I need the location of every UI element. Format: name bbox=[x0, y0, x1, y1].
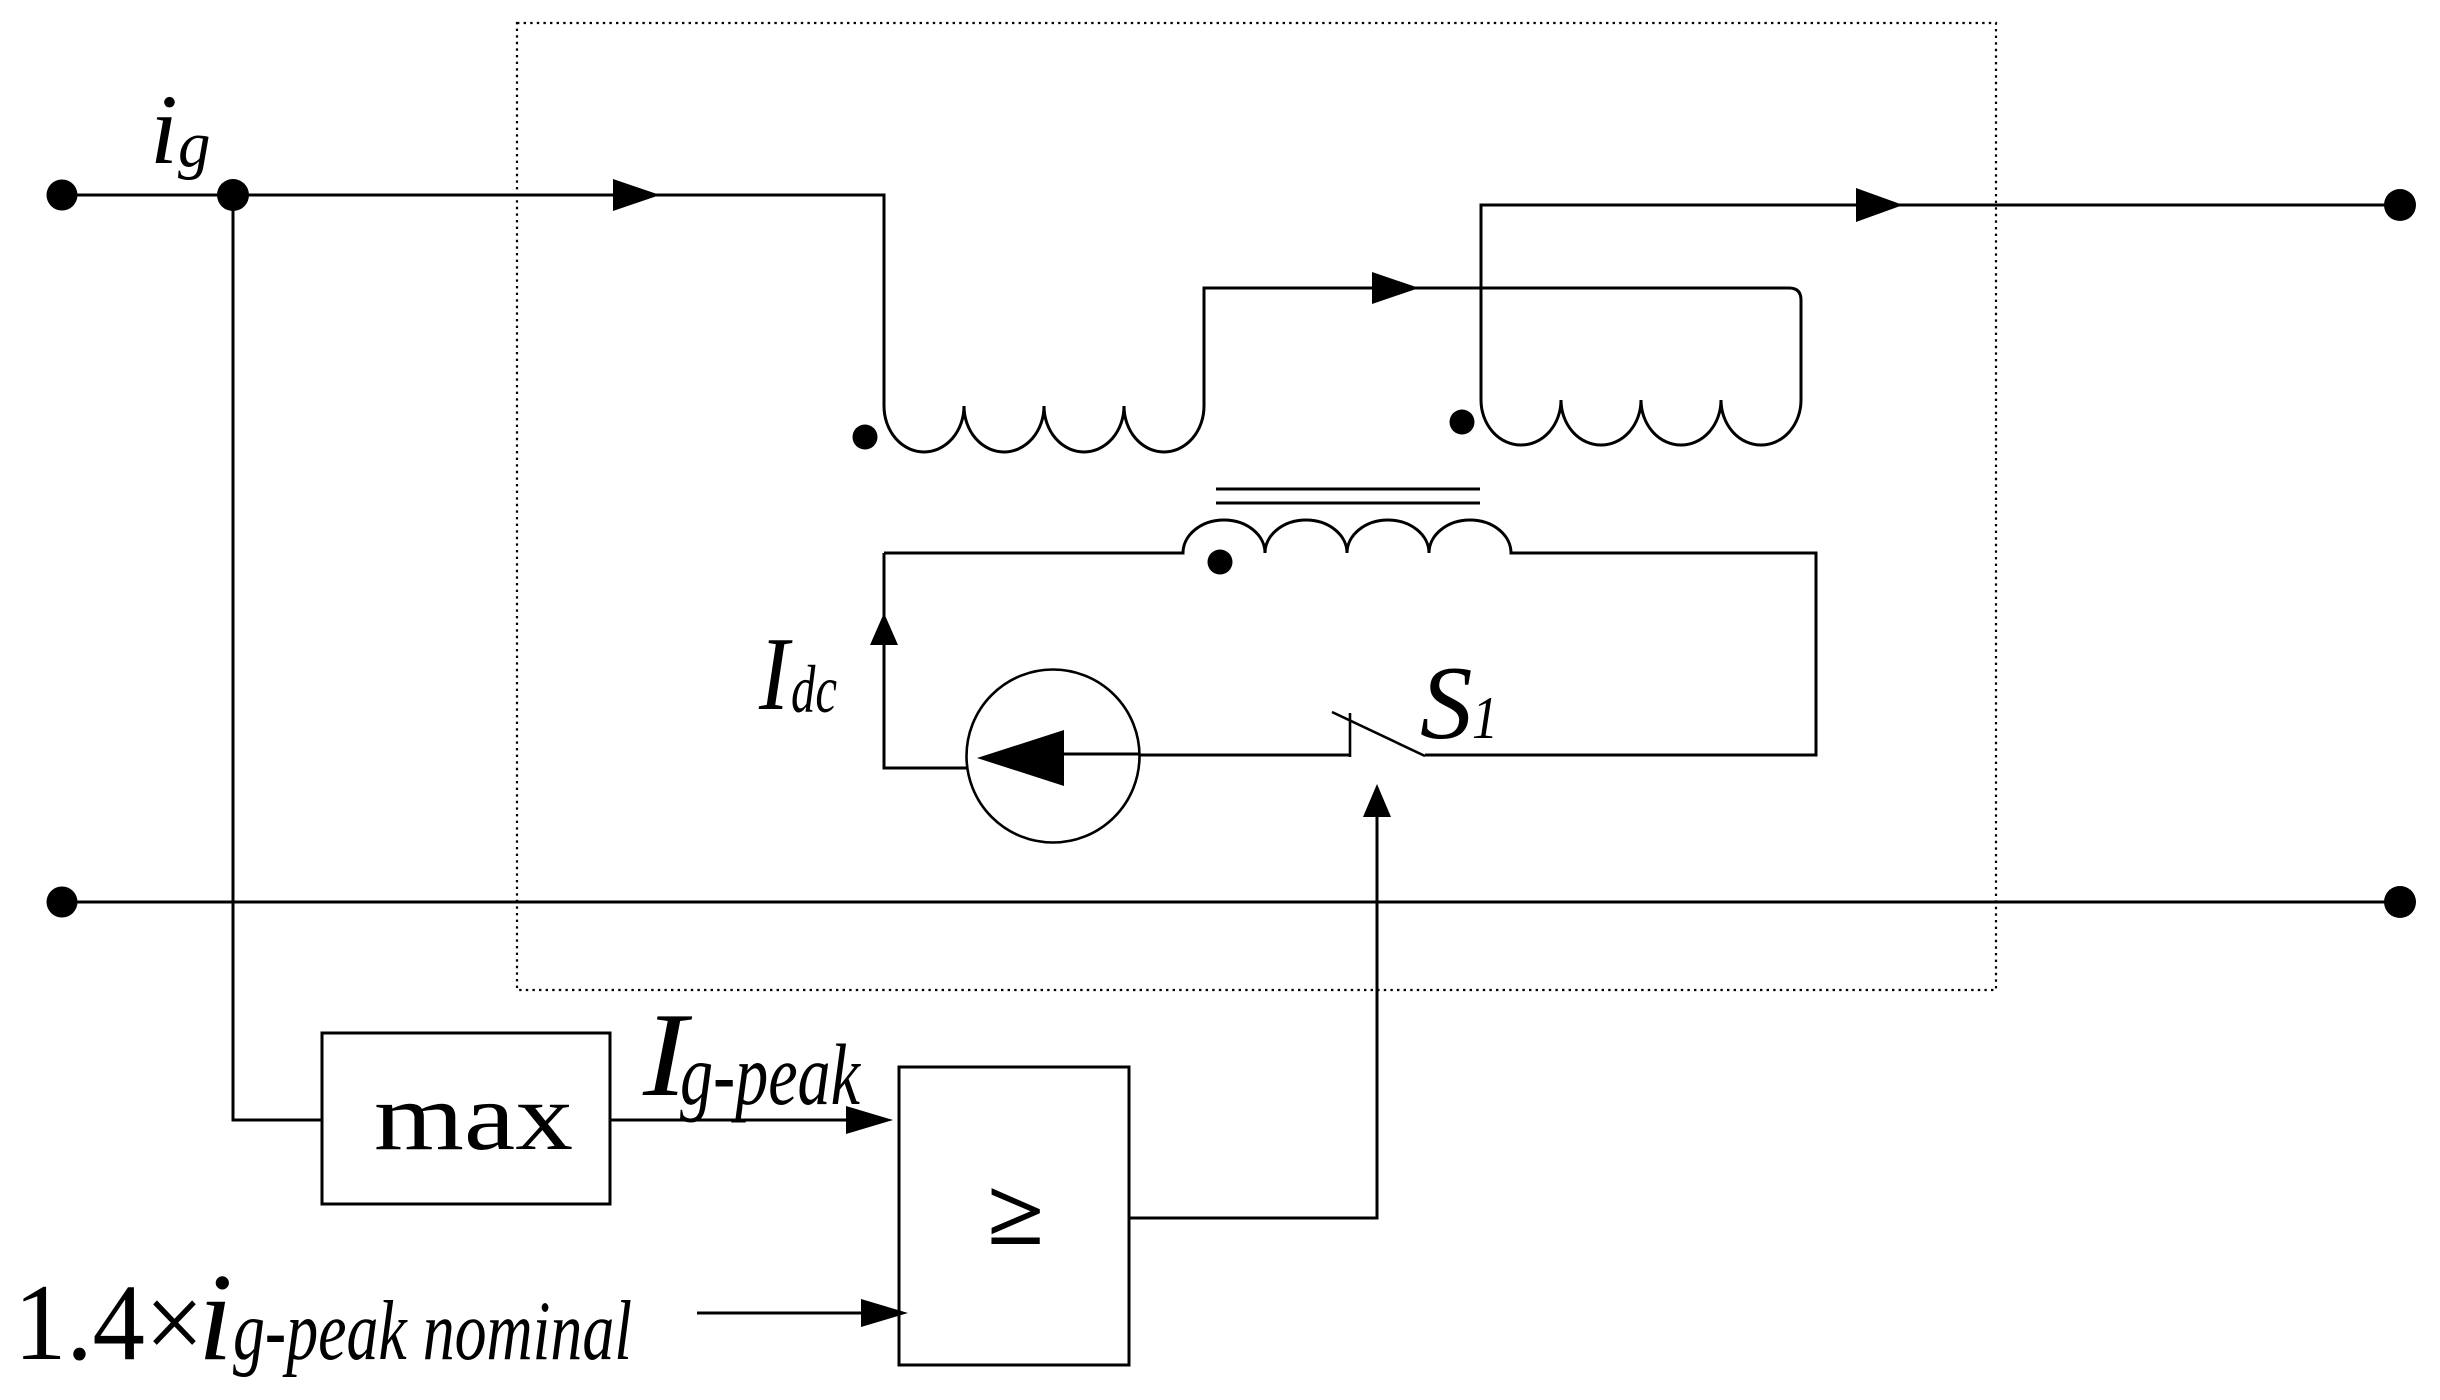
wire label to comparator lower input bbox=[697, 1312, 865, 1315]
comparator block bbox=[899, 1067, 1129, 1365]
arrow into comparator lower input bbox=[861, 1299, 908, 1327]
node junction dot ig bbox=[217, 179, 249, 211]
transformer secondary dot bbox=[1208, 550, 1233, 575]
node input terminal dot bbox=[47, 180, 78, 211]
current source circle bbox=[967, 670, 1140, 843]
arrow Idc bbox=[870, 613, 898, 645]
svg-text:i: i bbox=[198, 1249, 233, 1387]
inductor L3 secondary winding bbox=[1183, 520, 1511, 553]
svg-text:g: g bbox=[178, 109, 211, 181]
wire current source to switch bbox=[1139, 754, 1350, 757]
wire secondary loop right side bbox=[1425, 553, 1816, 755]
wire output to terminal bbox=[1480, 204, 2401, 207]
wire vertical rise from L2 bbox=[1480, 204, 1483, 401]
wire Idc branch left bbox=[884, 553, 968, 768]
transformer primary dot left bbox=[853, 425, 878, 450]
wire input from terminal to L1 bbox=[62, 194, 886, 197]
node bottom left terminal dot bbox=[47, 887, 78, 918]
svg-text:I: I bbox=[758, 615, 793, 732]
transformer core lines bbox=[1216, 488, 1480, 491]
svg-text:≥: ≥ bbox=[987, 1162, 1044, 1264]
bottom rail bbox=[62, 901, 2400, 904]
svg-text:1: 1 bbox=[1472, 685, 1498, 751]
arrow on input wire bbox=[613, 179, 660, 211]
arrow on middle wire bbox=[1372, 272, 1419, 304]
svg-text:1.4×: 1.4× bbox=[14, 1262, 204, 1383]
arrow switch control bbox=[1363, 784, 1391, 817]
transformer primary dot right bbox=[1450, 410, 1475, 435]
wire max to comparator bbox=[610, 1119, 848, 1122]
switch S1 blade bbox=[1332, 712, 1425, 756]
svg-text:g-peak: g-peak bbox=[680, 1026, 861, 1123]
svg-text:i: i bbox=[150, 74, 178, 185]
max block bbox=[322, 1033, 610, 1204]
wire vertical drop into L1 bbox=[883, 194, 886, 407]
svg-text:S: S bbox=[1420, 644, 1473, 761]
svg-text:g-peak nominal: g-peak nominal bbox=[233, 1284, 632, 1378]
dashed enclosure box bbox=[517, 23, 1996, 990]
svg-text:dc: dc bbox=[791, 651, 837, 727]
wire inside current source to right bbox=[1064, 753, 1140, 756]
node bottom right terminal dot bbox=[2384, 886, 2416, 918]
wire comparator output to switch control bbox=[1129, 817, 1377, 1218]
arrow on output wire bbox=[1856, 188, 1903, 222]
inductor L2 primary winding right bbox=[1481, 400, 1801, 445]
arrow into comparator upper input bbox=[846, 1106, 893, 1134]
wire L1 to L2 middle link bbox=[1204, 288, 1801, 407]
switch S1 contact tick bbox=[1349, 713, 1352, 757]
inductor L1 primary winding left bbox=[884, 406, 1204, 452]
current source arrow triangle bbox=[977, 730, 1064, 786]
wire junction drop to max bbox=[233, 195, 322, 1120]
node output terminal dot bbox=[2384, 189, 2416, 221]
wire secondary loop top left bbox=[884, 552, 1185, 555]
svg-text:max: max bbox=[374, 1063, 573, 1170]
